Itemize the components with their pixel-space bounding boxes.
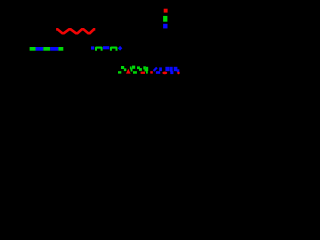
waveform trace green block i — [139, 68, 142, 71]
waveform trace green block m (bottom) — [146, 71, 148, 74]
waveform trace green block j — [143, 66, 146, 69]
inductor L1 arch 1 (green) — [95, 47, 103, 51]
marker red dome 2 — [177, 72, 179, 75]
waveform trace green block g (bottom bar) — [133, 71, 137, 74]
waveform trace green block l — [146, 67, 148, 71]
waveform trace blue block a — [159, 67, 162, 71]
waveform trace blue bottom bar 1 — [156, 71, 160, 74]
waveform trace green block d — [130, 66, 132, 69]
wire segment green 2 — [43, 47, 50, 51]
waveform trace blue block b — [165, 67, 169, 71]
resistor R1 — [56, 29, 95, 33]
LED D2 (green) — [163, 16, 167, 22]
waveform trace green block h — [137, 66, 140, 69]
waveform trace blue diagonal — [153, 67, 158, 72]
marker red dome 1 — [162, 72, 167, 75]
waveform trace green block a — [118, 71, 121, 73]
waveform trace blue block d — [174, 67, 178, 71]
LED D3 (blue) — [163, 24, 167, 29]
marker red bar 2 — [150, 71, 153, 73]
inductor L1 mid segment (blue) — [103, 46, 109, 49]
inductor L1 pin (blue) — [91, 46, 94, 49]
wire segment blue 1 — [36, 47, 44, 51]
wire segment green 1 — [30, 47, 36, 51]
waveform trace green block k — [145, 69, 147, 72]
waveform trace blue bottom bar — [170, 71, 173, 74]
waveform trace green block c — [124, 68, 126, 71]
wire segment blue 2 — [50, 47, 58, 51]
inductor L1 arch 2 (green) — [110, 47, 118, 51]
wire segment green 3 — [58, 47, 63, 51]
waveform trace green block e — [131, 68, 133, 71]
marker red bar 1 — [141, 72, 145, 74]
waveform trace green block b — [121, 66, 124, 69]
waveform trace green block f (peak) — [132, 66, 135, 69]
marker red triangle 1 — [126, 69, 131, 74]
waveform trace blue block c — [170, 67, 173, 72]
waveform trace blue tail — [177, 69, 180, 72]
LED D1 (red) — [164, 9, 168, 13]
inductor L1 end node (blue) — [118, 46, 122, 51]
